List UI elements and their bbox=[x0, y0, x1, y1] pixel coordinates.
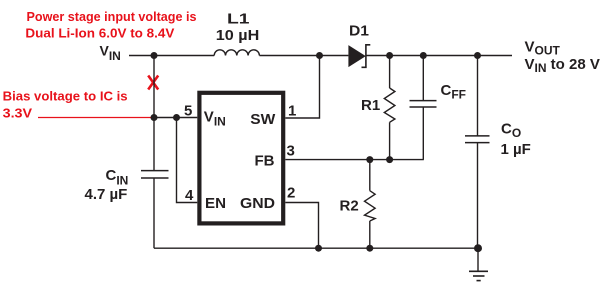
capacitor CIN bbox=[141, 171, 169, 178]
inductor L1 bbox=[214, 50, 259, 56]
wire: SW pin to switch node bbox=[285, 56, 319, 119]
wire: top rail from VIN label to L1 bbox=[129, 55, 214, 57]
svg-text:EN: EN bbox=[205, 195, 226, 212]
svg-text:GND: GND bbox=[240, 195, 275, 212]
node: CO top dot bbox=[474, 52, 481, 59]
svg-text:SW: SW bbox=[250, 111, 276, 128]
capacitor CFF bbox=[410, 56, 437, 160]
svg-text:FB: FB bbox=[255, 153, 275, 170]
node: R2 bottom dot bbox=[366, 245, 373, 252]
node: GND pin bottom dot bbox=[315, 245, 322, 252]
node: R2 top dot bbox=[366, 156, 373, 163]
diode D1 (Schottky) bbox=[348, 45, 370, 68]
wire: CIN bottom to bottom rail bbox=[153, 178, 155, 248]
svg-text:Dual Li-Ion 6.0V to 8.4V: Dual Li-Ion 6.0V to 8.4V bbox=[25, 27, 175, 41]
node: EN tie junction dot bbox=[173, 114, 180, 121]
capacitor CO bbox=[465, 56, 490, 249]
node: R1 top dot bbox=[386, 52, 393, 59]
wire: EN tie (junction down to pin 4) bbox=[177, 118, 198, 203]
svg-text:R2: R2 bbox=[340, 198, 359, 215]
red X (bias break mark) bbox=[148, 76, 158, 90]
label CO value bbox=[501, 121, 531, 159]
node: switch node dot on top rail bbox=[316, 52, 323, 59]
svg-text:2: 2 bbox=[287, 185, 295, 202]
ground bbox=[469, 248, 488, 280]
resistor R2 bbox=[365, 160, 376, 249]
svg-text:4: 4 bbox=[185, 187, 194, 204]
svg-text:L1: L1 bbox=[227, 11, 250, 28]
label L1 value bbox=[216, 11, 259, 44]
red annotation: power stage input voltage note bbox=[25, 10, 196, 41]
label CIN value bbox=[85, 167, 129, 203]
net label VIN bbox=[100, 43, 121, 63]
wire: bottom rail bbox=[154, 247, 478, 249]
node: VIN junction dot bbox=[151, 52, 158, 59]
op-amp U1 (regulator IC box) bbox=[199, 93, 283, 224]
red annotation: bias voltage note bbox=[3, 90, 128, 121]
svg-text:3.3V: 3.3V bbox=[3, 107, 33, 121]
node: CFF top dot bbox=[420, 52, 427, 59]
svg-text:1: 1 bbox=[288, 102, 296, 119]
net label VOUT bbox=[525, 38, 600, 75]
resistor R1 bbox=[384, 56, 395, 160]
svg-text:Bias voltage to IC is: Bias voltage to IC is bbox=[3, 90, 128, 104]
svg-text:Power stage input voltage is: Power stage input voltage is bbox=[27, 10, 197, 24]
svg-text:1 µF: 1 µF bbox=[501, 141, 531, 158]
svg-text:4.7 µF: 4.7 µF bbox=[85, 186, 128, 203]
node: ground junction dot bbox=[474, 244, 482, 252]
wire: VIN vertical drop (top rail to CIN top) bbox=[153, 56, 155, 171]
wire: GND pin to bottom rail bbox=[285, 203, 318, 249]
node: bias junction dot bbox=[151, 114, 158, 121]
svg-text:D1: D1 bbox=[349, 23, 369, 40]
red wire: bias pointer line bbox=[38, 117, 152, 119]
wire: FB rail bbox=[285, 159, 424, 161]
node: R1 bottom dot bbox=[386, 156, 393, 163]
wire: top rail from D1 cathode to VOUT bbox=[366, 55, 512, 57]
svg-text:R1: R1 bbox=[361, 97, 380, 114]
svg-text:3: 3 bbox=[287, 142, 295, 159]
wire: top rail from L1 to D1 anode bbox=[259, 55, 348, 57]
svg-text:10 µH: 10 µH bbox=[216, 27, 259, 44]
svg-text:5: 5 bbox=[184, 103, 192, 120]
wire: pin 5 feed bbox=[154, 117, 197, 119]
